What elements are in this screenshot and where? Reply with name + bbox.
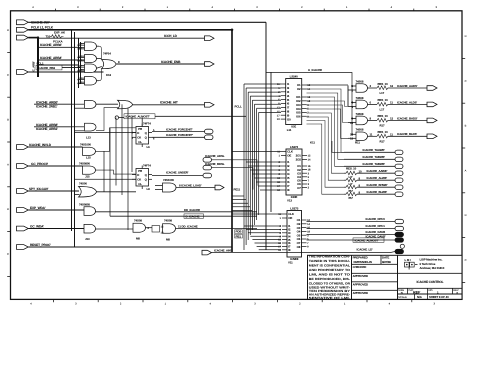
resistor RES_10 row1 [377, 86, 388, 90]
input connector PCLKA [17, 35, 29, 40]
svg-text:11: 11 [370, 132, 373, 136]
input connector EXP_WDA* [17, 208, 29, 213]
company address [420, 258, 445, 271]
wire gate 4 output [368, 135, 378, 137]
svg-text:A: A [7, 163, 9, 166]
wire gate 1 output [368, 87, 378, 89]
svg-text:12: 12 [390, 117, 394, 121]
wire row ICACHE_BHWE' [344, 186, 346, 188]
AND gate U5 74S08 a [85, 100, 97, 108]
svg-text:ICACHE_BADS': ICACHE_BADS' [397, 116, 418, 120]
output connector ICACHE_ALMOST pill [395, 238, 404, 242]
svg-text:GC_WDA': GC_WDA' [30, 224, 44, 228]
svg-text:74S1000: 74S1000 [163, 178, 174, 182]
svg-text:RES_10: RES_10 [378, 82, 389, 86]
inverter bubble ICACHE_ALMOST [115, 116, 118, 119]
svg-text:74F74: 74F74 [143, 164, 151, 168]
svg-text:ICACHE_ARB4': ICACHE_ARB4' [40, 56, 62, 60]
wire gate 3 output [368, 119, 378, 121]
wire LD row [307, 252, 391, 254]
output connector ICACHE_TAAWE' [395, 150, 403, 154]
AND gate U6 74S08 b [85, 123, 97, 131]
svg-text:CL: CL [138, 182, 142, 186]
svg-text:IC_ARB': IC_ARB' [32, 61, 36, 72]
wire 74S0800 out [96, 170, 136, 174]
svg-text:EXP_AK: EXP_AK [54, 30, 66, 34]
AND gate U31 74S08 right [356, 100, 368, 109]
sheet border frame [11, 11, 463, 300]
output connector ICCH_LD [205, 36, 215, 41]
svg-text:RES_10: RES_10 [346, 166, 357, 170]
svg-text:V13: V13 [287, 199, 292, 203]
svg-text:RESET_PROC': RESET_PROC' [30, 243, 51, 247]
output connector ICACHE_ENB [205, 62, 215, 67]
wire gate 2 inputs [352, 101, 356, 103]
svg-text:ICACHE_TABWE': ICACHE_TABWE' [363, 155, 386, 159]
svg-text:ICACHE_ALMOST': ICACHE_ALMOST' [126, 115, 151, 119]
svg-text:M8: M8 [136, 236, 140, 240]
svg-text:ICCH_LD: ICCH_LD [164, 34, 178, 38]
boxed label PB1 [235, 234, 243, 238]
wire GC_WDA* [28, 228, 84, 230]
wire HIT [133, 104, 205, 106]
boxed label ICACHE_ALMOST2 [353, 238, 384, 242]
circle connector [400, 244, 404, 248]
svg-text:ICACHE_2RB1': ICACHE_2RB1' [36, 104, 58, 108]
bus vertical PCLK distribution [71, 30, 73, 231]
wire AND outputs to OR [97, 45, 100, 47]
svg-text:ICACHE_TABWE': ICACHE_TABWE' [363, 162, 386, 166]
output connector ICACHE_AIN* [202, 250, 212, 255]
output connector ICACHE_DAVB [395, 232, 404, 236]
svg-text:OE: OE [288, 216, 292, 220]
svg-text:LS240: LS240 [290, 74, 299, 78]
scale row [398, 294, 463, 299]
svg-text:ICACHE_INVLD: ICACHE_INVLD [29, 143, 52, 147]
svg-text:10: 10 [350, 121, 354, 125]
wire load in [155, 185, 163, 187]
wire ARB6 [38, 46, 81, 48]
input connector GC_WDA* [17, 226, 29, 231]
svg-text:O8: O8 [297, 245, 301, 249]
IC U22 LS273 [287, 211, 302, 258]
output connector ICACHE_ADSL pill [203, 158, 212, 163]
IC U21 left pins [277, 150, 294, 193]
svg-text:C: C [465, 259, 467, 262]
wire SPY_IOLGA0* [28, 190, 79, 192]
wire DD_ICACHE line1 [96, 211, 258, 213]
wire bundle stubs IC2 [246, 161, 281, 163]
svg-text:SPY_IOLGA0': SPY_IOLGA0' [29, 187, 49, 191]
svg-text:ICACHE_BLWE': ICACHE_BLWE' [367, 190, 388, 194]
svg-text:V11: V11 [288, 261, 293, 265]
wire ICACHE_INVLD [28, 146, 82, 148]
input connector GATE_EN [17, 70, 29, 75]
svg-text:ICACHE_FORCEHIT': ICACHE_FORCEHIT' [166, 127, 193, 131]
boxed label PDB [235, 230, 243, 234]
svg-text:ICACHE_DPC1: ICACHE_DPC1 [366, 224, 386, 228]
wire TAAWE feed [332, 141, 344, 152]
output connector ICACHE_TABWE' [395, 164, 403, 168]
svg-text:APPROVED: APPROVED [353, 282, 368, 286]
svg-text:A: A [465, 169, 467, 172]
resistor RES row ICACHE_BLWE' [346, 192, 357, 196]
svg-text:L13: L13 [86, 136, 91, 140]
svg-text:74S08: 74S08 [356, 112, 364, 116]
svg-text:13: 13 [350, 137, 354, 141]
svg-text:74S1000: 74S1000 [80, 142, 91, 146]
svg-text:L17: L17 [380, 107, 385, 111]
output connector ICACHE_BHWE' [395, 185, 403, 189]
AND gate U13 74S08 e [163, 224, 176, 233]
wire to pill 1 [388, 87, 427, 89]
wire EXP_WDA* [28, 209, 84, 211]
IC U22 right pins [297, 218, 311, 249]
svg-text:D: D [465, 35, 467, 38]
svg-text:I10: I10 [287, 117, 291, 121]
svg-text:T10: T10 [46, 35, 51, 39]
wire from connector y72 [28, 71, 103, 73]
output connector ICACHE_BLWE' [395, 192, 403, 196]
svg-text:D: D [137, 131, 139, 135]
output connector ICACHE_ALDS' [427, 102, 437, 107]
IC U21 right pins [296, 154, 311, 190]
output connector ICACHE_AAWE' [395, 171, 403, 175]
wire bundle nested verticals [243, 84, 245, 250]
input connector ICACHE_INVLD [17, 145, 29, 150]
wire 74S00 in2 [75, 194, 80, 196]
svg-text:R\7: R\7 [349, 196, 354, 200]
wire IC1 to gate feeds [307, 84, 349, 86]
svg-text:74S08: 74S08 [356, 128, 364, 132]
title block outline [308, 255, 463, 299]
wire ARB4 [38, 59, 79, 61]
IC U20 left pins [277, 82, 291, 121]
svg-text:MENT IS CONFIDENTIAL: MENT IS CONFIDENTIAL [309, 264, 350, 268]
svg-text:M8: M8 [166, 237, 170, 241]
wire FORCEHIT 1 [152, 131, 205, 133]
title block divider legal/sig [351, 255, 353, 299]
svg-text:R11: R11 [355, 141, 360, 145]
AND gate U4 74F64 input [85, 77, 97, 86]
wire AND3 input stubs [81, 65, 85, 67]
flip-flop U14 [136, 127, 149, 145]
svg-text:12: 12 [390, 84, 394, 88]
boxed label D_ICACHE [184, 214, 204, 218]
svg-text:74S08: 74S08 [356, 96, 364, 100]
output connector ICACHE_FORCEHIT2* [205, 135, 214, 140]
svg-text:CL: CL [138, 140, 142, 144]
svg-text:PE11: PE11 [234, 188, 241, 192]
flip-flop U15 [136, 169, 149, 187]
wire AND4 input stubs [81, 77, 85, 79]
wire cluster vertical b [80, 42, 82, 84]
svg-text:SHEET 8 OF 40: SHEET 8 OF 40 [429, 295, 449, 299]
wire bundle stubs IC3 [244, 225, 281, 227]
svg-text:10: 10 [359, 169, 363, 173]
border zone marks top [32, 6, 437, 11]
wire ff clk feeds [75, 132, 137, 134]
input connector RESET_PROC* [17, 245, 29, 250]
wire to pill 4 [388, 135, 427, 137]
wire e out [176, 228, 258, 230]
svg-text:ICACHE_ALMOST': ICACHE_ALMOST' [355, 238, 380, 242]
svg-text:L6: L6 [147, 145, 151, 149]
input connector ICACHE_INH* [17, 20, 29, 25]
resistor T10 EXP_AK [50, 35, 63, 38]
svg-text:IOE: IOE [291, 125, 296, 129]
svg-text:ICACHE_TAAWE': ICACHE_TAAWE' [363, 148, 386, 152]
AND gate U3 74F64 input [85, 64, 97, 73]
svg-text:ICACHE CONTROL: ICACHE CONTROL [417, 280, 444, 284]
svg-text:J15: J15 [85, 175, 90, 179]
svg-text:SCALE: SCALE [398, 296, 407, 299]
svg-text:ICACHE_BLDS': ICACHE_BLDS' [397, 132, 417, 136]
wire load out [176, 187, 215, 189]
svg-text:ICACHE_UNDER': ICACHE_UNDER' [166, 170, 189, 174]
OR gate 74S64 HIT OR [118, 100, 133, 109]
svg-text:U_ICACHE: U_ICACHE [308, 68, 322, 72]
svg-text:IO6: IO6 [296, 114, 301, 118]
title block divider sig/right [397, 255, 399, 299]
wire ALMOST right [155, 115, 246, 117]
input connector GC_PROC0* [17, 164, 29, 169]
svg-text:GC_PROC0': GC_PROC0' [31, 162, 48, 166]
svg-text:K11: K11 [310, 141, 315, 145]
border zone marks right [462, 35, 467, 282]
output connector ICACHE_ALWE' [395, 178, 403, 182]
output connector ICACHE_DPC0 [395, 219, 404, 223]
AND gate U32 74S08 right [356, 116, 368, 125]
wire d out [146, 227, 153, 229]
resistor box R mid [152, 226, 160, 233]
svg-text:PREPARED: PREPARED [353, 256, 368, 260]
output connector ICACHE_LD pill [395, 249, 404, 253]
svg-text:11: 11 [390, 132, 393, 136]
svg-text:PB1: PB1 [236, 234, 242, 238]
bus vertical thick left [37, 38, 39, 77]
bus vertical second distribution [74, 32, 76, 247]
svg-text:74S0800: 74S0800 [79, 161, 90, 165]
boxed label ICACHE_ALMOST* [124, 114, 155, 119]
svg-text:LMI, AND IS NOT TO: LMI, AND IS NOT TO [309, 273, 351, 277]
svg-text:SENTATIVE OF LMI.: SENTATIVE OF LMI. [309, 296, 350, 300]
wire ICACHE_ENB from OR gate [116, 63, 205, 65]
wire GC_PROC0* [28, 165, 82, 167]
input connector PCLK [17, 27, 29, 32]
wire PCLK bus horizontal [28, 29, 232, 31]
svg-text:AND PROPRIETARY TO: AND PROPRIETARY TO [309, 268, 351, 272]
AND gate U11 74S08 c [84, 224, 96, 233]
wire cluster vertical a [78, 38, 80, 88]
svg-text:APPROVED: APPROVED [353, 291, 368, 295]
svg-text:74F64: 74F64 [103, 52, 111, 56]
wire gate 4 inputs [352, 133, 356, 135]
svg-text:ICACHE_ARB1': ICACHE_ARB1' [36, 127, 58, 131]
svg-text:D: D [137, 173, 139, 177]
wire AND2 input stubs [81, 55, 85, 57]
svg-text:L11: L11 [287, 128, 292, 132]
output connector ICACHE_DPC1 [395, 226, 404, 230]
wire ADSL right [212, 160, 258, 186]
svg-text:DMFRANKLIN: DMFRANKLIN [354, 260, 372, 264]
svg-text:ICACHE_BHWE': ICACHE_BHWE' [367, 183, 388, 187]
svg-text:74F74: 74F74 [143, 122, 151, 126]
svg-text:PDB: PDB [236, 230, 242, 234]
wire tangle verticals mid [103, 151, 105, 192]
AND gate U8 74S0800 [83, 166, 96, 174]
svg-text:ICACHE_FORCEHIT'': ICACHE_FORCEHIT'' [166, 133, 194, 137]
svg-text:ICACHE_AAWE': ICACHE_AAWE' [367, 169, 388, 173]
wire gate 3 inputs [352, 117, 356, 119]
svg-text:C: C [465, 80, 467, 83]
size row cells [398, 288, 459, 295]
output connector ICACHE_BADS' [427, 118, 437, 123]
svg-text:ICACHE_HIT: ICACHE_HIT [160, 101, 178, 105]
wire rows DPC [307, 221, 396, 223]
svg-text:ICACHE_AIN': ICACHE_AIN' [214, 248, 232, 252]
svg-text:2O2: 2O2 [296, 158, 302, 162]
output connector ICACHE_AADS' [427, 86, 437, 91]
AND gate U2 74F64 input [85, 55, 97, 63]
wire RB2 [62, 67, 81, 69]
svg-text:DATE: DATE [382, 256, 389, 260]
svg-text:THE INFORMATION CON-: THE INFORMATION CON- [309, 255, 350, 259]
wire to pill 2 [388, 103, 427, 105]
wire AND a out [96, 103, 118, 105]
svg-text:B: B [465, 125, 467, 128]
output connector ICACHE_FORCEHIT* [205, 129, 214, 134]
svg-text:74S08: 74S08 [356, 79, 364, 83]
resistor RES row ICACHE_AAWE' [346, 171, 357, 175]
wire row ICACHE_ALWE' [344, 179, 346, 181]
svg-text:L8: L8 [147, 187, 151, 191]
svg-text:OE: OE [287, 154, 291, 158]
svg-text:ICACHE_LD': ICACHE_LD' [357, 247, 374, 251]
company logo LMI [405, 258, 418, 270]
resistor RES row ICACHE_ALWE' [346, 178, 357, 182]
svg-text:ICACHE_RB2: ICACHE_RB2 [38, 66, 56, 70]
svg-text:D: D [7, 29, 9, 32]
wire 74S00 out [97, 191, 137, 193]
boxed label ICACHE_RB2 [36, 65, 62, 70]
svg-text:R17: R17 [380, 139, 385, 143]
AND gate U10 74S0805 [84, 207, 96, 216]
svg-text:LS273: LS273 [290, 206, 299, 210]
svg-text:8/27/86: 8/27/86 [382, 260, 391, 264]
wire CLK stub IC3 [232, 213, 282, 215]
wire ALMOST left [119, 117, 125, 119]
IC U20 LS240 [286, 79, 302, 125]
resistor RES_10 row3 [377, 118, 388, 122]
resistor RES_10 row2 [377, 102, 388, 106]
IC U21 LS273 [286, 149, 302, 195]
wire ARB1 [75, 130, 85, 132]
svg-text:PCLL: PCLL [235, 105, 242, 109]
svg-text:74S08: 74S08 [134, 219, 142, 223]
wire gate 1 inputs [352, 85, 356, 87]
AND gate U33 74S08 right [356, 132, 368, 141]
title block legal text [309, 255, 351, 300]
output connector ICACHE_TABWE' [395, 157, 403, 161]
svg-text:ICACHE_AADS': ICACHE_AADS' [397, 84, 418, 88]
wire BDSL right [212, 168, 254, 190]
svg-text:TAINED IN THIS DOCU-: TAINED IN THIS DOCU- [309, 259, 350, 263]
svg-text:RES_10: RES_10 [378, 114, 389, 118]
wire inner vertical 271 [270, 72, 272, 212]
wire ARB0 [72, 103, 85, 105]
svg-text:BE REPRODUCED, DIS-: BE REPRODUCED, DIS- [309, 277, 350, 281]
wire DAVB2 row [307, 239, 396, 241]
wire to pill 3 [388, 119, 427, 121]
IC U20 right pins [296, 83, 311, 118]
svg-text:CHECKED: CHECKED [353, 265, 367, 269]
wire U_ICACHE loop [266, 73, 352, 136]
wire row ICACHE_BLWE' [344, 193, 346, 195]
AND gate U12 74S08 d [133, 223, 146, 232]
title row divider [398, 272, 463, 274]
output connector ICACHE_BDSL pill [203, 165, 212, 170]
wire ICACHE_AIN [212, 252, 307, 254]
IC U22 left pins [278, 212, 295, 252]
svg-text:RES_10: RES_10 [378, 130, 389, 134]
svg-text:RES_10: RES_10 [378, 98, 389, 102]
wire row ICACHE_TABWE' [344, 158, 395, 160]
wire ICCH_LD horizontal [38, 37, 205, 39]
wire gate 2 output [368, 103, 378, 105]
border zone marks bottom [30, 299, 435, 305]
wire row ICACHE_AAWE' [344, 172, 346, 174]
wire RESET_PROC* [28, 246, 232, 248]
wire D_ICACHE line2 [110, 215, 257, 217]
output connector ICACHE_HIT [205, 103, 215, 108]
wire bundle horizontals lower [232, 195, 244, 197]
resistor RES row ICACHE_BHWE' [346, 185, 357, 189]
wire ARB8 [72, 126, 85, 128]
svg-text:11: 11 [390, 101, 393, 105]
svg-text:D: D [465, 214, 467, 217]
wire PCLKA to vertical [28, 37, 38, 39]
resistor RES_10 row4 [377, 134, 388, 138]
wire to 74S08 d [96, 228, 134, 230]
output connector ICACHE_BLDS' [427, 134, 437, 139]
OR gate U9 74S00 [79, 187, 97, 198]
svg-text:EXP_WDA': EXP_WDA' [30, 206, 46, 210]
svg-text:D_ICACHE: D_ICACHE [186, 214, 200, 218]
wire UNDER [152, 175, 203, 177]
wire 74S1000 out [96, 128, 136, 152]
svg-text:74S00: 74S00 [79, 181, 87, 185]
svg-text:K12: K12 [106, 73, 111, 77]
svg-text:ICACHE_ENB: ICACHE_ENB [161, 60, 181, 64]
svg-text:ICACHE_DPC0: ICACHE_DPC0 [366, 217, 386, 221]
svg-text:8 ICACHE_LOAD': 8 ICACHE_LOAD' [179, 183, 202, 187]
output connector ICACHE_LOAD pill [215, 185, 224, 190]
svg-text:D: D [7, 208, 9, 211]
wire ARB extra [38, 64, 79, 66]
svg-text:L15: L15 [86, 156, 91, 160]
svg-text:ICACHE_ALDS': ICACHE_ALDS' [397, 100, 417, 104]
svg-text:C: C [7, 74, 9, 77]
wire AND1 input stubs [81, 43, 85, 45]
svg-text:C: C [7, 253, 9, 256]
OR gate 74F64 output OR [102, 60, 117, 69]
svg-text:NO.: NO. [429, 289, 434, 292]
wire ICACHE_INH* [28, 21, 266, 23]
wire AND b out [96, 108, 118, 131]
svg-text:LS273: LS273 [290, 145, 299, 149]
border zone marks left [7, 29, 10, 276]
